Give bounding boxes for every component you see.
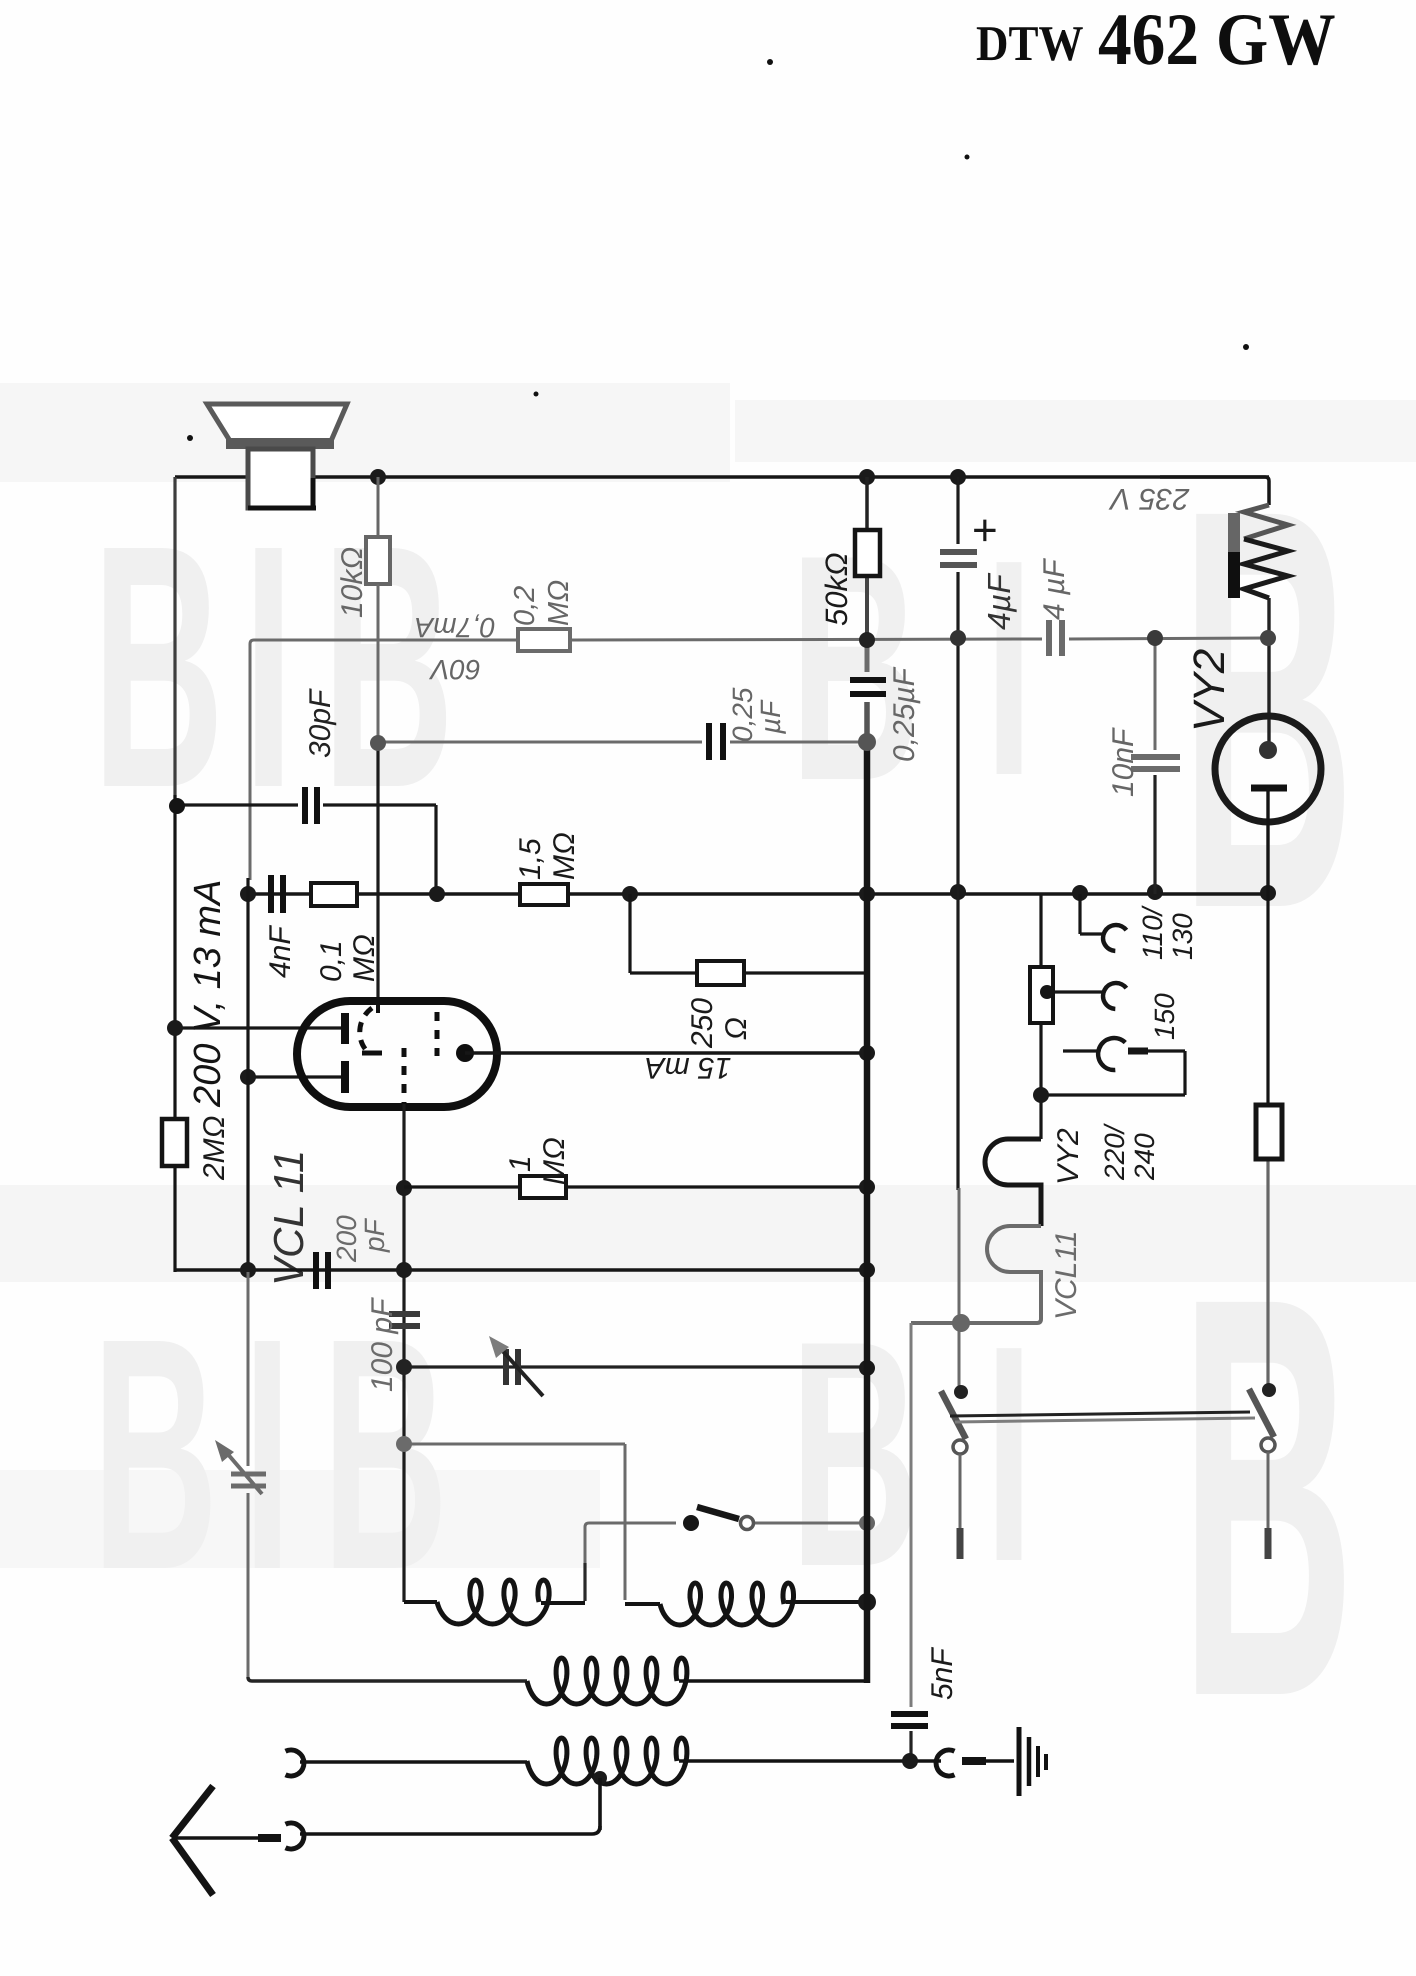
node L4 tap [593, 1771, 607, 1785]
svg-text:5nF: 5nF [926, 1647, 959, 1700]
svg-text:2MΩ: 2MΩ [198, 1116, 231, 1182]
svg-text:I: I [985, 1282, 1033, 1626]
socket tap 150 [1098, 978, 1127, 1010]
node left-rail grid-lead junction [167, 1020, 183, 1036]
node B+ anode junction [859, 1045, 875, 1061]
resistor 0,1MΩ [311, 883, 357, 906]
capacitor 10nF [1131, 754, 1180, 760]
wire feedback vertical [624, 1444, 627, 1600]
svg-text:0,2: 0,2 [509, 586, 541, 626]
node 60V 10nF junction [1147, 630, 1163, 646]
tube VCL11 triode grid dashed [435, 1012, 440, 1056]
svg-text:pF: pF [359, 1217, 390, 1253]
tube VCL11 anode dot [456, 1044, 474, 1062]
wire right rail to VY2 [1267, 598, 1270, 750]
node B+ switch junction [859, 1515, 875, 1531]
wire 248 rail [246, 878, 249, 1272]
svg-text:Ω: Ω [720, 1017, 753, 1040]
capacitor 200pF [313, 1252, 319, 1289]
resistor 0,2MΩ [518, 629, 570, 651]
svg-text:I: I [243, 1269, 292, 1638]
wire 30pF branch [177, 803, 298, 806]
capacitor 30pF [302, 787, 308, 824]
node B+ 200pF junction [859, 1262, 875, 1278]
tube VCL11 electrodes [341, 1013, 349, 1044]
svg-text:0,7mA: 0,7mA [415, 612, 496, 643]
speck [767, 59, 773, 65]
svg-text:1,5: 1,5 [514, 838, 547, 880]
socket tap 110/130 [1098, 920, 1127, 952]
wire top bus [175, 475, 1269, 479]
wire selector resistor leads [1039, 894, 1042, 967]
node B+ L2 junction [858, 1593, 876, 1611]
inductor osc coil L1 [404, 1600, 437, 1604]
svg-text:4 µF: 4 µF [1038, 558, 1071, 620]
rectifier tube VY2 [1215, 716, 1321, 822]
svg-text:0,25µF: 0,25µF [888, 666, 921, 762]
capacitor 0,25µF vertical [850, 677, 886, 683]
wire 10nF branch [1154, 638, 1157, 750]
svg-text:MΩ: MΩ [538, 1137, 571, 1185]
wire osc trimmer line [404, 1365, 867, 1368]
svg-text:150: 150 [1149, 993, 1180, 1040]
svg-text:50kΩ: 50kΩ [819, 552, 854, 626]
wire pentode grid lead [248, 1075, 341, 1078]
svg-text:4nF: 4nF [264, 925, 297, 978]
svg-text:30pF: 30pF [304, 688, 337, 758]
resistor 2MΩ [162, 1119, 187, 1166]
svg-text:4µF: 4µF [981, 572, 1017, 630]
resistor 1,5MΩ [520, 884, 568, 905]
capacitor 4 µF coupling [1046, 620, 1052, 656]
tube VCL11 grid curve [376, 1001, 380, 1013]
socket tap 220/240 [1094, 1034, 1126, 1072]
node selector junction b [1147, 884, 1163, 900]
svg-text:15 mA: 15 mA [645, 1051, 732, 1084]
svg-text:µF: µF [755, 699, 786, 735]
svg-text:0,25: 0,25 [727, 687, 758, 742]
socket antenna upper [286, 1750, 304, 1776]
wire tap 150 [1040, 985, 1054, 999]
svg-text:0,1: 0,1 [315, 940, 348, 982]
node ground junction [902, 1753, 918, 1769]
capacitor 4µF electrolytic [940, 549, 977, 555]
socket ground [936, 1750, 954, 1776]
svg-text:VY2: VY2 [1185, 649, 1234, 732]
wire 250Ω branch [628, 894, 631, 973]
speaker LS [207, 404, 347, 441]
node heater rail junction [952, 1314, 970, 1332]
svg-text:220/: 220/ [1099, 1122, 1130, 1181]
inductor antenna coil L4 [300, 1760, 527, 1764]
trimmer capacitor osc [503, 1349, 509, 1385]
node left-rail 30pF junction [169, 798, 185, 814]
svg-text:130: 130 [1167, 913, 1198, 960]
wire tap 220/240 loop [1063, 1049, 1100, 1052]
inductor tuning coil L3 [527, 1658, 687, 1704]
wire antenna tap line [598, 1778, 602, 1830]
node 30pF-grid junction [429, 886, 445, 902]
wire left rail [173, 477, 176, 800]
svg-text:B: B [92, 474, 224, 860]
node 10k-0,25uF junction [370, 735, 386, 751]
node B+ 60V junction [859, 632, 875, 648]
wire grid bus y894 [248, 892, 1268, 895]
svg-text:110/: 110/ [1137, 904, 1168, 960]
svg-text:60V: 60V [429, 654, 481, 685]
resistor 1MΩ [520, 1176, 566, 1198]
node B+ grid junction [859, 886, 875, 902]
wire right rail top corner [1160, 477, 1269, 505]
svg-text:MΩ: MΩ [548, 832, 581, 880]
wire 5nF branch [910, 1323, 913, 1707]
ballast resistor (urdox) [1244, 505, 1288, 539]
switch mains pole A [954, 1385, 968, 1399]
svg-text:VY2: VY2 [1052, 1128, 1085, 1185]
wire anode 15mA line [465, 1051, 867, 1054]
svg-text:240: 240 [1129, 1133, 1160, 1181]
wire cathode rail [402, 1104, 405, 1602]
capacitor 4nF [268, 875, 274, 913]
resistor selector dropper [1030, 967, 1053, 1023]
node selector junction a [1072, 885, 1088, 901]
wire feedback line [404, 1443, 625, 1446]
node 248 200pF junction [240, 1262, 256, 1278]
svg-text:235 V: 235 V [1108, 482, 1190, 515]
svg-text:10kΩ: 10kΩ [336, 547, 369, 618]
node selector bottom junction [1033, 1087, 1049, 1103]
switch waveband [683, 1515, 699, 1531]
heater filament VCL11 [911, 1226, 1041, 1323]
watermark [0, 383, 1416, 1815]
node 4nF junction [240, 886, 256, 902]
svg-text:1: 1 [504, 1155, 537, 1172]
antenna [172, 1786, 213, 1838]
svg-text:DTW: DTW [976, 15, 1084, 71]
svg-text:462 GW: 462 GW [1098, 0, 1336, 81]
node B+ 0,25uF junction [858, 733, 876, 751]
wire right rail lower [1266, 894, 1269, 1105]
heater filament VY2 [985, 1139, 1041, 1226]
wire waveband switch line [585, 1523, 676, 1565]
svg-text:100 pF: 100 pF [366, 1297, 399, 1392]
ground symbol [1017, 1727, 1022, 1796]
resistor 50kΩ [855, 530, 880, 576]
wire triode grid lead [175, 1026, 341, 1029]
svg-text:200: 200 [331, 1215, 362, 1263]
svg-text:VCL11: VCL11 [1050, 1230, 1083, 1320]
node cathode feedback junction [396, 1436, 412, 1452]
node rail 60V junction [950, 630, 966, 646]
capacitor 5nF [891, 1711, 928, 1717]
wire tap 110/130 [1078, 894, 1081, 934]
wire B+ rail [865, 477, 869, 530]
svg-text:MΩ: MΩ [348, 934, 381, 982]
socket antenna lower [286, 1823, 304, 1849]
node 248-lead junction [240, 1069, 256, 1085]
wire rectifier output rail [956, 477, 959, 544]
svg-text:+: + [972, 506, 998, 555]
trimmer capacitor antenna [231, 1472, 266, 1477]
svg-text:B: B [790, 1275, 920, 1634]
wire 1M line [404, 1185, 867, 1188]
node 4uF junction [950, 469, 966, 485]
svg-text:10nF: 10nF [1107, 727, 1140, 797]
node cathode 1M junction [396, 1180, 412, 1196]
fuse [1256, 1105, 1282, 1159]
resistor 10kΩ with leads [377, 477, 380, 537]
resistor 250Ω [697, 961, 744, 985]
svg-text:VCL 11: VCL 11 [265, 1150, 312, 1286]
inductor osc coil L2 [625, 1602, 660, 1606]
svg-text:MΩ: MΩ [543, 580, 575, 626]
node right rail 60V junction [1260, 630, 1276, 646]
wire antenna trimmer rail [247, 1272, 250, 1466]
node cathode 200pF junction [396, 1262, 412, 1278]
svg-text:B: B [92, 1269, 218, 1638]
node cathode trimmer junction [396, 1359, 412, 1375]
node 50k junction [859, 469, 875, 485]
svg-text:200 V, 13 mA: 200 V, 13 mA [187, 880, 229, 1108]
wire 60V line [250, 640, 516, 880]
wire 0,25uF branch [378, 741, 702, 744]
node heater bus junction [950, 884, 966, 900]
svg-text:250: 250 [686, 998, 719, 1049]
capacitor 0,25µF horizontal [706, 723, 712, 760]
node B+ trimmer junction [859, 1360, 875, 1376]
switch mains pole B [1262, 1383, 1276, 1397]
tube VCL11 cathode dashed [402, 1048, 407, 1104]
capacitor 100pF [389, 1311, 420, 1317]
node right rail grid junction [1260, 885, 1276, 901]
node 250Ω branch junction [622, 886, 638, 902]
wire 200pF line [175, 1268, 867, 1271]
tube VCL11 envelope [297, 1001, 497, 1107]
node B+ 1M junction [859, 1179, 875, 1195]
node speaker-10k junction [370, 469, 386, 485]
switch linkage [950, 1412, 1250, 1416]
